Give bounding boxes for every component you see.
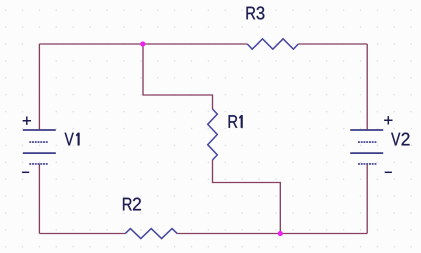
node B (junction dot, bottom) [278, 231, 283, 236]
wire top-right: R3 right lead to top-right corner [298, 43, 367, 45]
wire bottom-right: R2 right lead through node B to bottom-right corner [177, 233, 367, 235]
wire right upper: top-right corner down to V2 plus plate [366, 44, 368, 130]
resistor R3 [247, 7, 299, 50]
resistor R2 [123, 198, 177, 239]
node A (junction dot, top) [140, 41, 145, 46]
wire middle branch upper: node A down then right to R1 top lead [143, 44, 213, 109]
wire middle branch lower: R1 bottom lead down then right then down to node B [213, 160, 281, 234]
battery V1 [22, 117, 80, 173]
wire top-left: top rail from left corner to R3 left lead [39, 43, 247, 45]
wire bottom-left: bottom rail from left corner to R2 left lead [39, 233, 125, 235]
resistor R1 [208, 109, 243, 160]
battery V2 [350, 116, 409, 172]
wire left upper: top-left corner down to V1 plus plate [38, 44, 40, 130]
wire left lower: V1 minus plate down to bottom rail [38, 164, 40, 234]
wire right lower: V2 minus plate down to bottom rail [366, 164, 368, 234]
